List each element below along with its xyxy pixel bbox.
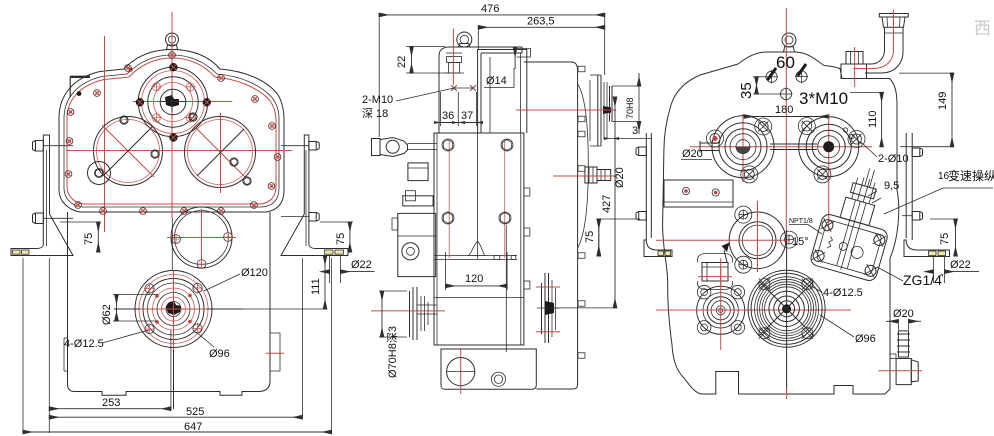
perimeter gasket bolts [65, 52, 281, 215]
plate hex bolts [442, 139, 513, 224]
right bracket bolts [309, 142, 319, 151]
svg-text:4-Ø12.5: 4-Ø12.5 [823, 287, 863, 299]
upper-left box [441, 53, 481, 133]
svg-text:35: 35 [738, 82, 755, 99]
small center hole between bores [169, 133, 177, 141]
dim 75 right bracket [955, 219, 957, 256]
svg-text:ZG1/4: ZG1/4 [903, 272, 942, 288]
lower left shaft flange [409, 291, 411, 337]
breather cap [879, 14, 908, 18]
dim 476 [378, 13, 380, 137]
svg-text:75: 75 [335, 233, 347, 245]
svg-text:Ø96: Ø96 [209, 348, 230, 360]
front plate [434, 133, 524, 345]
dim 70H8 [612, 85, 641, 87]
top-left pad tab [69, 77, 71, 98]
input boss bore [160, 89, 186, 115]
right hub bolts [802, 121, 812, 131]
lower casing right tab [270, 333, 280, 371]
right bracket foot bolts yellow [325, 250, 334, 254]
red horizontal centerline through gear bores [66, 150, 292, 152]
svg-text:37: 37 [461, 110, 473, 122]
dim 253 [48, 258, 50, 433]
svg-text:253: 253 [102, 397, 120, 409]
top cap bar [439, 47, 522, 133]
red centerline hubs horizontal [690, 146, 872, 148]
svg-text:149: 149 [937, 92, 949, 110]
dim 35 [753, 76, 766, 78]
svg-text:Ø20: Ø20 [682, 148, 703, 160]
svg-text:263,5: 263,5 [527, 16, 555, 28]
breather pipe elbow [865, 27, 903, 73]
bottom output flange circles [135, 271, 212, 348]
drain fitting bottom right [897, 324, 899, 330]
input boss mid circle [148, 77, 198, 127]
cap plug detail [447, 57, 462, 63]
red gasket line [67, 58, 276, 204]
rear edge bolts [578, 66, 585, 358]
shift lever clevis [372, 139, 381, 156]
dim 149 [899, 72, 954, 74]
svg-text:525: 525 [186, 406, 204, 418]
input shaft end detail [165, 95, 179, 107]
svg-text:Ø62: Ø62 [101, 304, 113, 325]
shift housing block [408, 163, 428, 181]
right gear bore [185, 117, 256, 188]
flange shaft end [166, 301, 181, 315]
red line through plug [452, 29, 454, 86]
housing inner wall line [64, 55, 279, 207]
svg-text:180: 180 [775, 104, 793, 116]
side pad with 2 holes [664, 180, 733, 207]
2-M10 thread holes [451, 85, 476, 91]
svg-text:Ø22: Ø22 [351, 259, 372, 271]
lower rear fitting [585, 167, 597, 183]
lifting eye right view [782, 33, 796, 47]
weld triangle mark [467, 241, 487, 255]
housing outer outline [59, 50, 284, 213]
dim 647 [23, 431, 332, 433]
tower [478, 50, 527, 134]
black lower centerline [786, 230, 788, 390]
rear body [524, 62, 578, 389]
svg-text:Ø22: Ø22 [950, 259, 971, 271]
dim 75 mid [598, 219, 600, 255]
dim 75 left [60, 221, 101, 223]
svg-text:3: 3 [632, 125, 638, 137]
dim 110 [850, 91, 884, 93]
red tick right side [266, 352, 284, 354]
dim 525 [49, 416, 302, 418]
hub diagonal cross [759, 281, 814, 336]
dim 111 right [324, 256, 326, 310]
right bracket of right view [905, 133, 907, 238]
9,5 dim ticks [868, 191, 877, 196]
lower casing outline [68, 212, 271, 395]
mid view vertical centerline [489, 57, 491, 133]
svg-text:变速操纵: 变速操纵 [948, 168, 994, 183]
svg-text:120: 120 [465, 273, 483, 285]
small boss lower-left [88, 162, 111, 185]
svg-text:Ø20: Ø20 [614, 167, 626, 188]
svg-text:647: 647 [184, 421, 202, 433]
housing outline right view [663, 52, 899, 394]
svg-text:60: 60 [776, 53, 795, 72]
svg-text:476: 476 [481, 3, 499, 15]
flange bolt holes [145, 284, 154, 293]
svg-text:Ø14: Ø14 [486, 75, 507, 87]
lifting eye left view [166, 33, 179, 46]
red main vertical centerline [785, 8, 787, 230]
small tab top [517, 49, 531, 58]
flange centerlines [114, 308, 243, 310]
2-O10 label [843, 128, 847, 132]
top mount pad holes 3*M10 [766, 71, 777, 82]
dim O62 [113, 294, 158, 296]
svg-text:Ø70H8深3: Ø70H8深3 [386, 326, 399, 378]
left hub bolts [758, 122, 768, 132]
plate edge tabs [524, 188, 530, 196]
flange small red dots [155, 294, 159, 298]
svg-text:″: ″ [940, 273, 944, 284]
red centerline input shaft [516, 109, 616, 111]
bottom output coupling disc (side view) [541, 283, 543, 334]
left gear bore [94, 117, 163, 186]
shaft between hubs [770, 143, 817, 145]
oil fill fitting [846, 52, 863, 65]
left bracket bolts [33, 141, 44, 152]
label O22 right [329, 256, 331, 283]
red pipe centerline [853, 10, 894, 69]
svg-text:75: 75 [939, 233, 951, 245]
dim 120 [445, 252, 447, 290]
svg-text:110: 110 [867, 110, 879, 128]
dim 75 (left bracket of right view) [598, 219, 600, 256]
lower left hub [697, 286, 745, 334]
round inspection cover [729, 212, 786, 269]
2-M10 leader and text [396, 88, 454, 101]
svg-text:15°: 15° [792, 236, 809, 248]
oil filter housing lobe [697, 254, 732, 290]
lifting eye mid view [457, 32, 472, 47]
dim 60 slash arrows [768, 68, 777, 80]
dim O70H8深3 [379, 290, 407, 292]
svg-text:3*M10: 3*M10 [799, 89, 848, 108]
boss bolts [136, 63, 211, 123]
svg-text:深 18: 深 18 [362, 107, 388, 120]
left bracket foot bolts yellow [13, 250, 21, 254]
left bearing hub [712, 116, 774, 178]
dim 263,5 [477, 27, 479, 50]
small cap [405, 191, 415, 201]
input boss flange circle [138, 67, 207, 136]
main shift block [398, 213, 436, 276]
hub bolt holes [759, 279, 770, 290]
bottom sump plate [441, 349, 536, 389]
big output hub [748, 270, 825, 347]
red vertical centerline x=172 [171, 12, 173, 218]
black arrow mark [722, 243, 730, 253]
gear shift unit [809, 160, 904, 283]
svg-text:111: 111 [310, 278, 322, 295]
right bearing hub [799, 117, 859, 177]
oil filter fitting [702, 263, 728, 282]
svg-text:Ø20: Ø20 [893, 308, 914, 320]
dim 75 right [320, 221, 353, 223]
svg-text:NPT1/8: NPT1/8 [789, 218, 813, 225]
rear dome [578, 84, 589, 248]
svg-text:75: 75 [83, 233, 95, 245]
svg-text:西: 西 [974, 19, 991, 38]
svg-text:427: 427 [601, 195, 613, 213]
PTO cover circle [171, 207, 232, 268]
left hub shaft stub [700, 142, 719, 144]
svg-text:Ø120: Ø120 [241, 267, 268, 279]
right mounting bracket [281, 135, 348, 256]
svg-text:4-Ø12.5: 4-Ø12.5 [64, 338, 104, 350]
input coupling disc stack [597, 75, 599, 146]
svg-text:75: 75 [584, 231, 596, 243]
svg-text:2-M10: 2-M10 [362, 94, 393, 106]
red vertical centerline x=104 [104, 36, 106, 232]
svg-text:70H8: 70H8 [625, 97, 635, 119]
left mounting bracket [11, 135, 73, 256]
dim 427 [614, 97, 616, 308]
svg-text:Ø96: Ø96 [855, 333, 876, 345]
svg-text:22: 22 [396, 56, 408, 68]
dim 22 [406, 46, 445, 48]
input boss bolt circle red [142, 71, 205, 134]
gear bore hex plugs [120, 116, 128, 124]
dim 180 [744, 116, 829, 118]
left bracket of right view [645, 133, 647, 240]
svg-text:9,5: 9,5 [884, 180, 899, 192]
lower casing left rib [63, 338, 65, 371]
svg-text:36: 36 [442, 110, 454, 122]
dim 36 37 [440, 92, 442, 126]
O22 label right [933, 256, 935, 283]
svg-text:2-Ø10: 2-Ø10 [878, 153, 909, 165]
red horizontal centerline through input boss [133, 101, 232, 103]
